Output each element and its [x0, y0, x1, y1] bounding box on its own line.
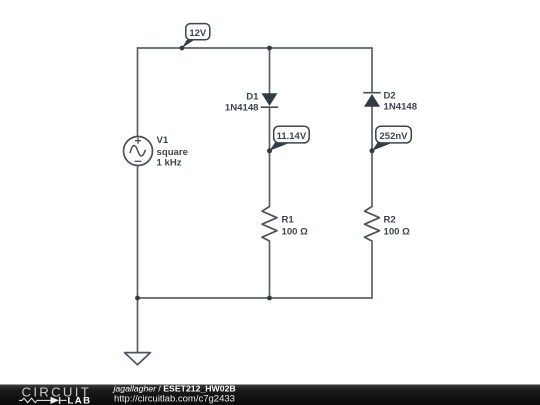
- svg-text:1N4148: 1N4148: [225, 103, 259, 114]
- svg-text:LAB: LAB: [68, 395, 92, 405]
- svg-text:12V: 12V: [189, 28, 207, 39]
- wire left vertical lower: [137, 166, 139, 299]
- svg-text:100 Ω: 100 Ω: [384, 227, 411, 238]
- svg-text:R1: R1: [282, 215, 295, 226]
- wire left vertical upper: [137, 48, 139, 137]
- svg-text:http://circuitlab.com/c7g2433: http://circuitlab.com/c7g2433: [114, 394, 235, 405]
- svg-text:square: square: [157, 147, 188, 158]
- wire middle branch upper: [269, 48, 271, 93]
- voltage source V1: [124, 137, 153, 166]
- ground wire stem: [137, 298, 139, 353]
- svg-text:V1: V1: [157, 135, 169, 146]
- CircuitLab logo: [19, 384, 91, 405]
- footer credit text: [113, 384, 236, 405]
- diode D2: [363, 93, 380, 107]
- wire bottom horizontal: [138, 297, 373, 299]
- wire middle branch lower: [269, 241, 271, 298]
- wire right branch mid: [371, 107, 373, 207]
- annotation 252nV: [370, 126, 412, 153]
- svg-text:1 kHz: 1 kHz: [157, 158, 182, 169]
- label V1 value: [157, 135, 188, 169]
- svg-text:D2: D2: [384, 91, 396, 102]
- svg-text:100 Ω: 100 Ω: [282, 227, 309, 238]
- svg-text:jagallagher / ESET212_HW02B: jagallagher / ESET212_HW02B: [113, 384, 236, 394]
- wire top horizontal: [138, 47, 373, 49]
- wire middle branch mid: [269, 107, 271, 206]
- label R1: [282, 215, 309, 238]
- ground: [125, 353, 151, 365]
- junction node bottom left: [135, 296, 140, 301]
- junction node bottom middle: [267, 296, 272, 301]
- svg-text:D1: D1: [246, 92, 259, 103]
- label D2: [384, 91, 418, 113]
- label D1: [225, 92, 259, 114]
- annotation 11.14V: [267, 126, 309, 153]
- diode D1: [261, 93, 279, 107]
- junction node top: [267, 46, 272, 51]
- footer bar: [0, 385, 540, 405]
- svg-text:11.14V: 11.14V: [277, 131, 307, 142]
- svg-text:252nV: 252nV: [380, 131, 409, 142]
- svg-text:1N4148: 1N4148: [384, 102, 418, 113]
- annotation 12V: [180, 24, 210, 51]
- resistor R1: [262, 207, 277, 242]
- resistor R2: [365, 207, 380, 242]
- svg-text:R2: R2: [384, 215, 396, 226]
- wire right branch lower: [371, 241, 373, 298]
- label R2: [384, 215, 411, 238]
- wire right branch upper: [371, 48, 373, 93]
